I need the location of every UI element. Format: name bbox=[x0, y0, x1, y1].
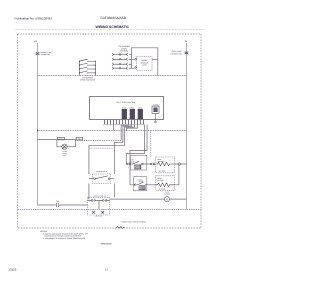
svg-text:* DOOR LOCK SWITCH SHOWN: * DOOR LOCK SWITCH SHOWN bbox=[121, 220, 147, 223]
terminal comb pins 1-14 bbox=[104, 120, 145, 125]
svg-text:BAKE: BAKE bbox=[122, 106, 126, 109]
svg-text:OVEN: OVEN bbox=[63, 150, 67, 153]
svg-text:NOTES:: NOTES: bbox=[40, 230, 48, 233]
connector P2 on N bbox=[185, 51, 189, 54]
door assembly dashed top bbox=[89, 147, 115, 149]
motor M1 bbox=[164, 197, 169, 202]
lock motor lower contacts bbox=[92, 211, 104, 214]
capacitor C1 bbox=[57, 203, 59, 207]
svg-text:DOOR SWITCH: DOOR SWITCH bbox=[96, 170, 107, 173]
svg-text:FGF366ASA/ASB: FGF366ASA/ASB bbox=[101, 16, 126, 20]
svg-text:12: 12 bbox=[105, 269, 108, 272]
wire rail y209 bbox=[18, 209, 202, 211]
wire door sw sides down bbox=[89, 184, 115, 200]
wire lamp feed bbox=[38, 139, 57, 141]
svg-text:Publication No: 5995539967: Publication No: 5995539967 bbox=[15, 16, 53, 20]
relay K1 coil bbox=[122, 106, 127, 118]
spark module U1 bbox=[137, 57, 153, 71]
wire motor line bbox=[110, 198, 187, 200]
connector P1 on L1 bbox=[36, 52, 40, 55]
buzzer BZ1 bbox=[152, 103, 159, 123]
wire L1 vertical bbox=[37, 43, 39, 205]
svg-text:2. COMPONENTS SHOWN AT ROOM T: 2. COMPONENTS SHOWN AT ROOM TEMPERATURE bbox=[43, 237, 86, 240]
valve V2 bbox=[137, 182, 143, 185]
capacitor C1 line bbox=[38, 204, 88, 206]
outer dashed border bbox=[18, 34, 202, 228]
wire N vertical bbox=[186, 43, 188, 210]
svg-text:CONNECTOR: CONNECTOR bbox=[171, 52, 183, 55]
wire lock motor center drop bbox=[98, 200, 100, 209]
valve V1 bbox=[133, 161, 139, 164]
svg-text:13123: 13123 bbox=[9, 267, 17, 271]
wire lamp loop bbox=[57, 140, 76, 147]
lock motor contacts bbox=[88, 199, 110, 201]
svg-text:LOCK: LOCK bbox=[138, 106, 143, 109]
svg-text:5995539967: 5995539967 bbox=[101, 243, 113, 246]
wire row1 to N bbox=[175, 163, 187, 165]
lamp LT1 bbox=[62, 144, 67, 149]
svg-text:WIRING SCHEMATIC: WIRING SCHEMATIC bbox=[96, 25, 130, 29]
valve V1 enclosure bbox=[130, 155, 147, 170]
svg-text:TOD: TOD bbox=[56, 200, 60, 203]
svg-text:BAKE: BAKE bbox=[158, 158, 162, 161]
wire comb stub bbox=[127, 124, 138, 130]
wire comb drop to door switch left bbox=[89, 124, 135, 174]
svg-text:ELEC. OVEN CONTROL: ELEC. OVEN CONTROL bbox=[117, 101, 136, 104]
relay K2 coil bbox=[130, 106, 135, 118]
svg-text:BROIL: BROIL bbox=[158, 177, 163, 180]
wire row1 bbox=[126, 163, 150, 165]
wire rail top to neutral drop bbox=[132, 48, 158, 76]
wire comb drop to igniter row2 bbox=[130, 125, 147, 185]
wire bus to igniter box bbox=[150, 131, 152, 158]
wire comb drop to door switch right bbox=[115, 124, 132, 174]
broil igniter R2 bbox=[156, 176, 175, 191]
svg-text:POWER CORD: POWER CORD bbox=[41, 51, 52, 54]
svg-text:L1: L1 bbox=[34, 40, 37, 43]
svg-text:LOCK SW: LOCK SW bbox=[95, 216, 102, 218]
bake igniter R1 bbox=[156, 157, 175, 173]
svg-text:SPARK SWITCHES: SPARK SWITCHES bbox=[80, 79, 96, 82]
svg-text:M: M bbox=[166, 198, 168, 201]
svg-text:N: N bbox=[185, 40, 187, 43]
svg-text:GLO BAR: GLO BAR bbox=[159, 169, 167, 172]
switch lamp bbox=[58, 137, 65, 140]
valve V2 enclosure bbox=[134, 177, 147, 191]
relay K3 coil bbox=[138, 106, 143, 118]
svg-text:BROIL: BROIL bbox=[139, 178, 144, 181]
header dotted rule bbox=[15, 29, 206, 31]
wire main bus y75 bbox=[38, 75, 187, 77]
wire row2 bbox=[130, 184, 137, 186]
switch bank S1 top-burner spark switches bbox=[79, 59, 96, 75]
wire module to neutral bbox=[152, 58, 158, 60]
svg-text:GLO BAR: GLO BAR bbox=[159, 187, 167, 190]
wire comb drop to lamp bbox=[121, 124, 128, 140]
switch lamp 2 bbox=[76, 137, 82, 140]
svg-text:LOCK: LOCK bbox=[165, 191, 169, 194]
wire igniter rail bbox=[131, 55, 133, 69]
svg-text:1: 1 bbox=[128, 167, 129, 169]
wire bus y130 bbox=[38, 130, 187, 132]
spark igniter electrodes E1-E4 bbox=[112, 53, 132, 70]
wire row2 to igniter bbox=[145, 184, 156, 186]
svg-text:IGNITERS: IGNITERS bbox=[120, 50, 129, 53]
wire row2 join row1 bbox=[175, 164, 179, 185]
wire comb stub 2 bbox=[113, 124, 115, 130]
wire comb drop to igniter row1 bbox=[126, 125, 144, 165]
electronic oven control U2 bbox=[90, 97, 164, 120]
wire rail to module bbox=[132, 59, 135, 68]
chassis squiggle bbox=[116, 227, 125, 229]
svg-text:BROIL: BROIL bbox=[130, 106, 135, 109]
